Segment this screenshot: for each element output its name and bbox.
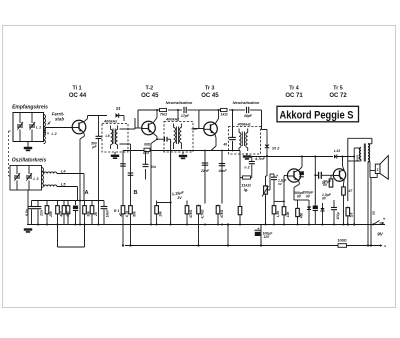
- wire Tr5 collector: [343, 166, 345, 170]
- svg-text:47kΩ: 47kΩ: [220, 210, 224, 220]
- wire 10μF branch down: [314, 175, 316, 205]
- svg-text:OC 71: OC 71: [285, 93, 303, 99]
- resistor left-row 1 (20k): [46, 201, 48, 205]
- wire L4 to grid: [43, 171, 45, 174]
- wire F1 secondary top: [120, 128, 136, 130]
- resistor left-row 4: [67, 201, 69, 205]
- IF transformer F1 400kHz: [102, 124, 128, 153]
- volume pot 11kΩ: [265, 176, 267, 186]
- svg-text:Neutralisation: Neutralisation: [233, 100, 260, 105]
- svg-text:lg.: lg.: [244, 188, 248, 192]
- svg-text:12V: 12V: [264, 235, 271, 239]
- wire emitter RC: [204, 151, 206, 204]
- wire pot wiper to cap: [268, 189, 271, 191]
- svg-text:10n: 10n: [151, 165, 157, 169]
- svg-text:OC 44: OC 44: [69, 93, 87, 99]
- svg-text:9V: 9V: [377, 232, 384, 237]
- diode bias: [308, 200, 310, 207]
- capacitor F3 left: [232, 110, 234, 137]
- coil L5: [44, 185, 57, 187]
- capacitor 500pF: [98, 116, 100, 137]
- svg-text:Tr 3: Tr 3: [205, 85, 214, 91]
- electrolytic Tr4 collector: [299, 171, 304, 175]
- wire speaker bottom lead: [370, 177, 377, 179]
- electrolytic left-row: [75, 201, 77, 206]
- capacitor 46nF: [219, 163, 225, 165]
- svg-text:St 2: St 2: [272, 146, 280, 151]
- svg-text:400kHz: 400kHz: [237, 122, 251, 126]
- diode right: [322, 203, 324, 208]
- svg-text:100μ: 100μ: [336, 212, 340, 219]
- resistor 100Ω (battery series): [338, 244, 347, 248]
- resistor 68Ω AGC: [144, 148, 150, 151]
- switch S1: [373, 221, 380, 225]
- neutralization capacitor 46pF: [246, 107, 248, 113]
- resistor left-row 5 (30k): [84, 201, 86, 205]
- resistor left-row 3 (360): [63, 201, 65, 205]
- coupling electrolytic Tr4 base: [273, 174, 275, 177]
- wire F2 out to Tr3: [193, 128, 205, 130]
- capacitor 22nF left: [37, 201, 39, 207]
- transistor Tr4: [287, 169, 300, 182]
- title box Akkord Peggie S: [277, 106, 359, 122]
- svg-text:10k: 10k: [286, 212, 290, 218]
- resistor mid-row 5 (4,7kΩ): [198, 205, 200, 206]
- wire top line Tr3b: [229, 109, 245, 111]
- svg-text:22nF: 22nF: [200, 169, 210, 173]
- diode St3: [334, 155, 337, 159]
- capacitor 22nF: [202, 162, 208, 164]
- wire Tr2 base: [135, 127, 142, 129]
- svg-text:Tr 5: Tr 5: [333, 86, 342, 92]
- wire Tr3 collector: [215, 119, 218, 124]
- svg-text:6,8n: 6,8n: [25, 209, 29, 216]
- battery plus terminal: [380, 222, 384, 224]
- coil L1: [44, 115, 46, 135]
- svg-text:1k: 1k: [322, 181, 326, 185]
- neutralization capacitor 17pF: [183, 107, 185, 113]
- IF transformer F3 400kHz: [229, 127, 261, 155]
- svg-text:B: B: [133, 190, 137, 196]
- svg-text:2k: 2k: [94, 212, 98, 217]
- svg-text:17pF: 17pF: [181, 114, 190, 118]
- svg-text:5,6: 5,6: [350, 213, 354, 218]
- resistor 450Ω: [297, 200, 299, 208]
- svg-text:R 1: R 1: [114, 209, 120, 213]
- svg-text:46nF: 46nF: [218, 169, 228, 173]
- svg-text:L6: L6: [106, 134, 110, 138]
- wire F1 secondary bottom: [120, 143, 131, 145]
- svg-text:L 3: L 3: [33, 177, 38, 181]
- variable capacitor C1a: [19, 113, 21, 124]
- svg-text:A: A: [84, 190, 88, 196]
- ground (F2): [182, 152, 184, 155]
- wire positive bus right: [347, 245, 382, 247]
- transistor Tr5: [333, 169, 345, 181]
- coil L3: [42, 168, 44, 188]
- svg-text:100Ω: 100Ω: [337, 239, 346, 243]
- resistor left-row 6 (2k): [91, 201, 93, 205]
- svg-text:6V: 6V: [306, 194, 311, 198]
- svg-text:10k: 10k: [158, 211, 162, 217]
- svg-text:4,7k: 4,7k: [142, 151, 149, 155]
- svg-text:Oszillatorkreis: Oszillatorkreis: [12, 158, 47, 164]
- wire bus link x228: [227, 225, 229, 246]
- resistor mid-row 6 (47kΩ): [217, 205, 219, 206]
- wire detector out: [266, 148, 268, 156]
- svg-text:n 2: n 2: [244, 166, 249, 170]
- svg-text:Akkord Peggie S: Akkord Peggie S: [280, 110, 354, 122]
- svg-text:Ti 1: Ti 1: [72, 85, 81, 91]
- wire detector jog: [262, 129, 268, 131]
- variable capacitor C2b: [28, 166, 30, 175]
- output transformer loop: [348, 137, 372, 139]
- diode St1: [116, 113, 119, 118]
- svg-text:4,7kΩ: 4,7kΩ: [200, 209, 204, 219]
- wire positive bus: [125, 245, 338, 247]
- svg-text:L 2: L 2: [52, 132, 57, 136]
- wire right drops to bus: [353, 157, 355, 225]
- wire AGC line: [123, 150, 144, 152]
- resistor 1kΩ: [221, 108, 228, 111]
- wire St1 to IF1: [119, 115, 124, 117]
- capacitor AGC 10nF: [145, 151, 147, 165]
- diode St2: [265, 145, 270, 148]
- wire F2 secondary top: [192, 128, 198, 130]
- elco right mid: [313, 206, 318, 210]
- svg-text:11kΩ: 11kΩ: [241, 183, 251, 188]
- svg-text:OC 45: OC 45: [141, 93, 159, 99]
- capacitor 6,8nF: [31, 201, 33, 207]
- svg-text:Z: Z: [377, 168, 379, 172]
- wire to Tr5 base: [315, 174, 318, 176]
- wire AGC drop: [122, 151, 124, 205]
- svg-text:6V: 6V: [297, 195, 302, 199]
- junction dots negative bus: [79, 224, 81, 226]
- output transformer primary: [360, 148, 362, 160]
- wire oscillator feedback loop: [57, 225, 59, 248]
- svg-text:1kΩ: 1kΩ: [220, 113, 227, 117]
- wire L5 to grid: [57, 186, 78, 188]
- svg-text:46pF: 46pF: [243, 114, 253, 118]
- IF transformer F2 400kHz: [164, 122, 193, 153]
- wire supply line: [249, 156, 333, 158]
- resistor mid-row 1 (4,7k): [122, 205, 124, 206]
- svg-text:22n: 22n: [40, 210, 44, 217]
- ground (oscillator circuit): [27, 190, 29, 225]
- electrolytic 100μF 12V: [260, 225, 262, 246]
- resistor mid-row 3 (10k): [156, 201, 158, 205]
- svg-text:4,7nF: 4,7nF: [254, 157, 266, 161]
- wire secondary to speaker: [369, 162, 371, 171]
- wire Tr2 collector: [154, 118, 157, 123]
- svg-text:68Ω: 68Ω: [144, 143, 151, 147]
- svg-text:T-2: T-2: [145, 86, 153, 92]
- transistor Tr3: [204, 122, 218, 136]
- resistor right-row 1: [347, 207, 349, 208]
- transistor Tr1: [72, 120, 86, 134]
- output transformer core: [363, 144, 365, 162]
- wire Tr4 base bias link: [274, 200, 284, 202]
- wire Tr4 collector up: [299, 167, 302, 170]
- resistor left-row 2 (4k7): [57, 201, 59, 205]
- transistor Tr2: [142, 121, 156, 135]
- capacitor 4,7nF: [251, 156, 253, 162]
- variable capacitor C1b: [31, 113, 33, 124]
- oscillator tuned circuit box: [10, 166, 42, 191]
- battery minus terminal: [380, 244, 383, 246]
- resistor Tr4 bias 2: [283, 176, 285, 206]
- capacitor emitter series: [157, 138, 164, 140]
- svg-text:1,5k: 1,5k: [276, 211, 280, 218]
- coil L2: [44, 129, 46, 144]
- wire Tr5 emitter: [343, 180, 346, 184]
- ground (F1): [114, 152, 116, 155]
- tuning gang coupling (dashed): [8, 131, 10, 176]
- wire Tr1 collector: [84, 119, 88, 122]
- ground bar: [24, 228, 32, 230]
- svg-text:L13: L13: [334, 149, 340, 153]
- svg-text:OC 72: OC 72: [329, 93, 347, 99]
- svg-text:20k: 20k: [49, 211, 53, 218]
- resistor det load: [243, 176, 251, 179]
- svg-text:3V: 3V: [177, 196, 182, 200]
- wire Tr1 emitter: [83, 133, 86, 136]
- ground (F3): [246, 153, 248, 155]
- svg-text:50k: 50k: [132, 211, 136, 217]
- svg-text:46: 46: [222, 143, 227, 147]
- svg-text:L 1: L 1: [36, 126, 41, 130]
- svg-text:400kHz: 400kHz: [103, 119, 117, 123]
- variable capacitor C2a: [16, 166, 18, 175]
- svg-text:4500: 4500: [356, 154, 360, 162]
- ground (antenna circuit): [27, 142, 29, 148]
- svg-text:450: 450: [299, 213, 303, 220]
- wire antenna coil to Tr1 base: [46, 127, 74, 129]
- wire top line to F2: [188, 109, 199, 111]
- svg-text:Tr 4: Tr 4: [289, 86, 298, 92]
- svg-text:400kHz: 400kHz: [165, 117, 179, 121]
- svg-text:St: St: [116, 106, 121, 111]
- wire top line to F3: [250, 109, 262, 111]
- svg-text:5Ω: 5Ω: [372, 210, 376, 215]
- loudspeaker: [375, 164, 380, 173]
- coil L4: [44, 172, 57, 174]
- wire mid row link: [157, 202, 171, 204]
- resistor mid-row 4 (47kΩ): [186, 201, 188, 205]
- wire left row top link: [32, 200, 105, 202]
- svg-text:47kΩ: 47kΩ: [189, 210, 193, 220]
- antenna tuned circuit box: [13, 113, 44, 142]
- resistor Tr4 bias 1: [273, 201, 275, 204]
- wire negative bus: [27, 224, 385, 226]
- capacitor 10μF coupling: [314, 157, 316, 176]
- svg-text:OC 45: OC 45: [201, 93, 219, 99]
- wire Tr2 emitter: [154, 134, 157, 137]
- resistor 1kΩ Tr5: [330, 175, 332, 178]
- wire top line Tr2b: [168, 109, 182, 111]
- wire Tr4 emitter down: [298, 181, 301, 184]
- capacitor 10nF: [103, 201, 105, 207]
- resistor mid-row 2 (50k): [130, 205, 132, 206]
- wire primary feed: [353, 148, 355, 157]
- svg-text:7kΩ: 7kΩ: [160, 113, 167, 117]
- svg-text:Neutralisation: Neutralisation: [166, 100, 193, 105]
- capacitor right: [333, 200, 335, 208]
- resistor 7kΩ: [160, 108, 167, 111]
- wire Tr3 emitter: [214, 135, 217, 138]
- wire right drops to bus2: [367, 162, 369, 246]
- output transformer secondary: [368, 143, 372, 145]
- svg-text:stab: stab: [55, 117, 64, 122]
- svg-text:10nF: 10nF: [106, 209, 110, 218]
- wire detector AGC branch: [170, 139, 172, 224]
- junction dots bus: [37, 224, 39, 226]
- svg-text:Empfangskreis: Empfangskreis: [12, 105, 48, 111]
- wire top line Tr2: [138, 109, 160, 111]
- wire top line Tr3: [199, 109, 221, 111]
